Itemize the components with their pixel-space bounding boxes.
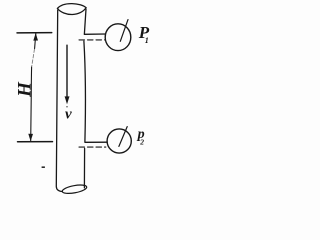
svg-text:1: 1 bbox=[145, 36, 149, 45]
svg-text:H: H bbox=[14, 81, 35, 98]
svg-text:v: v bbox=[65, 106, 72, 122]
svg-text:2: 2 bbox=[139, 138, 144, 147]
